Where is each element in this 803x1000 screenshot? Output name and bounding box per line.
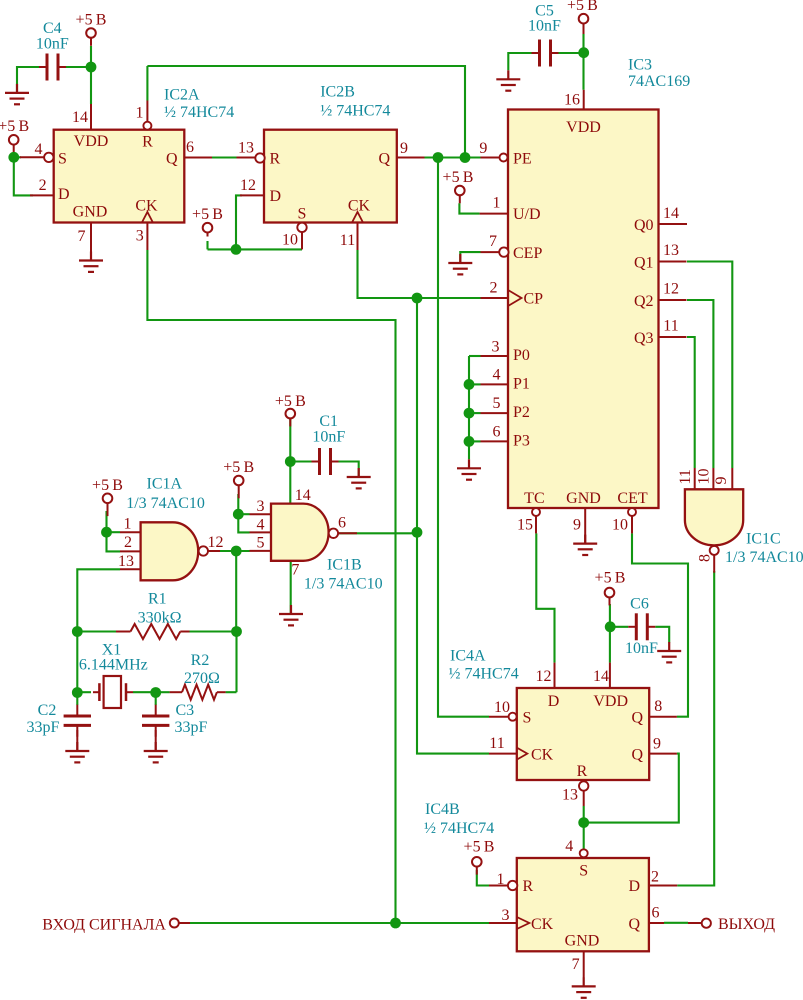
wire IC3 Q1 to IC1C pin 9 — [687, 262, 732, 469]
flip-flop IC2B body — [264, 130, 397, 223]
junction input / CK net — [390, 918, 401, 929]
wire C4 left to ground — [17, 67, 40, 93]
svg-text:C3: C3 — [175, 702, 194, 719]
svg-text:4: 4 — [35, 141, 43, 158]
junction +5/IC1A pin1 — [101, 527, 112, 538]
IC1C pin 11 — [694, 468, 696, 489]
svg-text:2: 2 — [124, 534, 132, 551]
wire C1 right to ground — [338, 462, 359, 478]
ground (C6) — [657, 642, 681, 662]
IC1B pin 4 — [250, 531, 272, 533]
IC3 pin 16 (VDD) — [583, 90, 585, 110]
junction IC4A R / IC4B S — [578, 817, 589, 828]
IC3 pin 9 (PE) — [500, 154, 508, 162]
wire IC3 CEP to ground — [460, 252, 480, 263]
wire +5 to IC3 U/D — [459, 203, 479, 213]
svg-text:11: 11 — [340, 232, 355, 249]
svg-text:10nF: 10nF — [528, 17, 561, 34]
svg-text:+5 В: +5 В — [223, 459, 254, 476]
wire IC4A Qbar pin9 to IC4B S net — [584, 754, 679, 823]
svg-text:9: 9 — [573, 517, 581, 534]
IC4B pin 6 (Q) — [649, 922, 664, 924]
junction +5/D/S IC2B — [231, 244, 242, 255]
svg-text:R: R — [577, 763, 588, 780]
svg-text:1: 1 — [136, 105, 144, 122]
wire +5 to IC1B pins 3,4 — [238, 494, 249, 532]
svg-text:Q: Q — [628, 916, 640, 933]
wire +5 to IC2A S and D — [14, 157, 33, 195]
svg-text:P0: P0 — [513, 347, 530, 364]
svg-text:9: 9 — [479, 140, 487, 157]
wire signal input to IC4B CK — [190, 922, 489, 924]
power +5 B (IC2B) — [192, 206, 223, 237]
power +5 B (C4) — [76, 12, 107, 46]
IC4A pin 14 (VDD) — [609, 663, 611, 688]
svg-text:6: 6 — [338, 515, 346, 532]
power +5 B (IC4B R) — [464, 839, 495, 875]
svg-text:3: 3 — [502, 907, 510, 924]
power +5 B (IC1A) — [92, 477, 123, 516]
wire C5 net to IC3 VDD pin16 — [582, 34, 584, 90]
svg-text:7: 7 — [572, 956, 580, 973]
nand gate IC1C body — [685, 489, 743, 545]
IC3 pin 4 (P1) — [481, 383, 509, 385]
IC3 pin 10 (CET) — [628, 508, 636, 516]
IC1B pin 3 — [250, 513, 272, 515]
svg-text:2: 2 — [490, 280, 498, 297]
junction C5/VDD16 — [578, 47, 589, 58]
wire R1 leads — [77, 630, 116, 632]
IC4B pin 4 (S) — [580, 849, 588, 857]
svg-text:U/D: U/D — [513, 206, 541, 223]
svg-text:7: 7 — [78, 228, 86, 245]
svg-text:10nF: 10nF — [625, 640, 658, 657]
svg-text:C6: C6 — [630, 595, 649, 612]
svg-text:R2: R2 — [191, 652, 210, 669]
wire +5 to IC4B R pin1 — [477, 870, 489, 886]
junction +5/IC1B pin3 — [233, 509, 244, 520]
IC4B pin 3 (CK) — [517, 917, 530, 929]
junction X1 right — [150, 687, 161, 698]
svg-text:C2: C2 — [38, 702, 57, 719]
junction CP net — [412, 293, 423, 304]
svg-text:Q: Q — [378, 150, 390, 167]
svg-text:15: 15 — [517, 517, 533, 534]
svg-text:R: R — [142, 134, 153, 151]
resistor R1 — [116, 631, 131, 633]
IC4A pin 11 (CK) — [517, 748, 528, 760]
svg-text:1/3 74AC10: 1/3 74AC10 — [304, 576, 383, 593]
IC2B pin 11 (CK) — [352, 212, 363, 223]
IC3 pin 3 (P0) — [481, 355, 509, 357]
IC1C pin 8 (output) — [710, 546, 719, 555]
IC4B pin 2 (D) — [649, 885, 677, 887]
svg-text:2: 2 — [651, 868, 659, 885]
svg-text:+5 В: +5 В — [76, 12, 107, 29]
svg-text:9: 9 — [713, 477, 730, 485]
wire IC1C out to IC4B D — [677, 571, 714, 886]
junction P3 — [464, 436, 475, 447]
IC2A pin names — [58, 133, 178, 221]
svg-text:10: 10 — [282, 232, 298, 249]
svg-text:D: D — [628, 878, 640, 895]
svg-text:13: 13 — [663, 242, 679, 259]
ground (IC3 pin9) — [573, 535, 597, 555]
svg-text:5: 5 — [493, 395, 501, 412]
IC2B pin 10 (S) — [297, 223, 306, 232]
svg-text:+5 В: +5 В — [443, 169, 474, 186]
IC3 pin 1 (U/D) — [480, 213, 508, 215]
wire IC1A pin13 left — [77, 569, 120, 631]
svg-text:6.144MHz: 6.144MHz — [79, 657, 148, 674]
svg-text:12: 12 — [240, 177, 256, 194]
svg-text:GND: GND — [73, 204, 108, 221]
svg-text:D: D — [58, 186, 70, 203]
capacitor C4 — [39, 54, 66, 81]
svg-text:13: 13 — [118, 553, 134, 570]
IC4A pin 13 (R) — [579, 781, 588, 790]
svg-text:P1: P1 — [513, 376, 530, 393]
svg-text:1/3 74AC10: 1/3 74AC10 — [126, 495, 205, 512]
svg-text:11: 11 — [677, 469, 694, 484]
svg-text:16: 16 — [564, 92, 580, 109]
IC4A pin 9 (Qbar) — [649, 753, 677, 755]
ground (IC1B pin7) — [279, 605, 303, 625]
ground (IC4B pin7) — [572, 977, 596, 997]
junction R1 left — [72, 626, 83, 637]
junction R1 right — [231, 626, 242, 637]
capacitor C6 — [628, 613, 655, 640]
junction IC1B out / CP net — [412, 527, 423, 538]
IC2B pin 13 (R) — [255, 153, 264, 162]
svg-text:7: 7 — [291, 562, 299, 579]
svg-text:5: 5 — [257, 535, 265, 552]
IC1B pin 6 (output) — [329, 529, 338, 538]
svg-text:14: 14 — [663, 205, 679, 222]
wire R2 leads — [156, 691, 170, 693]
wire IC4B Q to output — [664, 922, 688, 924]
svg-text:10nF: 10nF — [312, 429, 345, 446]
ground (C3) — [144, 742, 168, 762]
wire IC1A out node down to R1 — [235, 551, 237, 632]
svg-text:12: 12 — [208, 534, 224, 551]
IC2A pin 1 (R) — [143, 122, 151, 130]
wire node B vertical (CP net down to IC4A CK) — [417, 298, 489, 754]
junction Q net / node down — [433, 152, 444, 163]
svg-text:IC3: IC3 — [628, 57, 652, 74]
svg-text:3: 3 — [136, 227, 144, 244]
power +5 B (C6) — [595, 570, 626, 606]
IC3 pin 12 (Q2) — [659, 299, 687, 301]
svg-text:Q: Q — [631, 710, 643, 727]
svg-text:10: 10 — [494, 699, 510, 716]
wire IC3 Q3 to IC1C pin 11 — [687, 337, 695, 468]
IC3 pin 7 (CEP) — [499, 247, 508, 256]
svg-text:P2: P2 — [513, 404, 530, 421]
IC3 pin 9 (GND) — [584, 508, 586, 543]
junction IC1A out node — [231, 546, 242, 557]
svg-text:11: 11 — [663, 318, 678, 335]
IC4A pin 12 (D) — [554, 663, 556, 688]
IC2A pin 2 (D) — [30, 194, 54, 196]
IC4B pin 1 (R) — [508, 881, 517, 890]
junction P1 — [464, 379, 475, 390]
svg-text:P3: P3 — [513, 433, 530, 450]
nand gate IC1A body — [141, 522, 199, 580]
junction +5/S/D IC2A — [8, 152, 19, 163]
power +5 B (C1) — [275, 393, 306, 426]
svg-text:33pF: 33pF — [175, 719, 208, 736]
IC3 pin 5 (P2) — [481, 412, 509, 414]
svg-text:GND: GND — [566, 490, 601, 507]
IC2B pin 12 (D) — [240, 194, 264, 196]
ground (P0-P3) — [457, 459, 481, 479]
flip-flop IC2A body — [54, 130, 185, 223]
svg-text:S: S — [298, 206, 307, 223]
ground (CEP) — [448, 254, 472, 274]
svg-text:6: 6 — [493, 423, 501, 440]
svg-text:13: 13 — [238, 140, 254, 157]
svg-text:9: 9 — [653, 736, 661, 753]
wire +5 to IC1A pins 1,2 — [107, 511, 121, 551]
power +5 B (IC1B) — [223, 459, 254, 498]
IC2B pin names — [270, 150, 391, 222]
svg-text:6: 6 — [652, 905, 660, 922]
svg-text:D: D — [270, 188, 282, 205]
wire C6 right to ground — [655, 627, 669, 643]
wire C2 leads — [76, 692, 78, 705]
wire C4 right to junction — [65, 66, 91, 68]
svg-text:VDD: VDD — [74, 133, 109, 150]
svg-text:+5 В: +5 В — [567, 0, 598, 14]
wire R1 right node down to R2 — [235, 632, 237, 693]
svg-text:TC: TC — [524, 490, 544, 507]
svg-text:R: R — [523, 878, 534, 895]
IC2A pin 3 (CK) — [142, 212, 153, 223]
svg-text:½ 74HC74: ½ 74HC74 — [320, 102, 390, 119]
IC1C pin 10 — [712, 468, 714, 489]
svg-text:74AC169: 74AC169 — [628, 73, 690, 90]
svg-text:VDD: VDD — [593, 693, 628, 710]
IC2A pin 4 (S) — [44, 153, 53, 162]
svg-text:+5 В: +5 В — [275, 393, 306, 410]
svg-text:CK: CK — [531, 916, 554, 933]
svg-text:½ 74HC74: ½ 74HC74 — [424, 820, 494, 837]
IC2A pin 7 (GND) — [90, 223, 92, 252]
wire IC1B pin7 to ground — [290, 561, 292, 614]
svg-text:+5 В: +5 В — [464, 839, 495, 856]
svg-text:CET: CET — [617, 490, 647, 507]
wire IC2B CK to IC3 CP — [358, 250, 481, 298]
svg-text:2: 2 — [39, 177, 47, 194]
IC2A pin 6 (Q) — [184, 157, 212, 159]
svg-text:Q0: Q0 — [634, 217, 654, 234]
svg-text:CK: CK — [348, 198, 371, 215]
svg-text:33pF: 33pF — [27, 719, 60, 736]
svg-text:8: 8 — [654, 698, 662, 715]
svg-text:4: 4 — [565, 838, 573, 855]
ground (IC2A pin7) — [79, 252, 103, 272]
svg-text:14: 14 — [295, 487, 311, 504]
svg-text:½ 74HC74: ½ 74HC74 — [164, 104, 234, 121]
counter IC3 74AC169 body — [508, 110, 659, 509]
wire +5/C1 to IC1B pin14 VDD — [289, 418, 291, 504]
wire X1 leads — [76, 632, 78, 693]
svg-text:ВХОД СИГНАЛА: ВХОД СИГНАЛА — [42, 916, 166, 933]
svg-text:Q2: Q2 — [634, 293, 654, 310]
svg-text:8: 8 — [697, 554, 714, 562]
power +5 B (IC2A S) — [0, 118, 29, 157]
IC2A pin 14 (VDD) — [90, 104, 92, 130]
svg-text:IC1B: IC1B — [327, 557, 362, 574]
svg-text:6: 6 — [186, 139, 194, 156]
power +5 B (C5) — [567, 0, 598, 34]
svg-text:Q: Q — [631, 747, 643, 764]
wire C3 leads — [155, 692, 157, 705]
junction X1 left — [72, 687, 83, 698]
svg-text:12: 12 — [663, 281, 679, 298]
IC1A pin 2 — [120, 550, 141, 552]
svg-text:CEP: CEP — [513, 245, 542, 262]
svg-text:4: 4 — [257, 517, 265, 534]
wire C5 left to ground — [508, 53, 531, 70]
wire R-net top horizontal (IC2A R to PE column) — [147, 66, 465, 158]
svg-text:1: 1 — [124, 516, 132, 533]
IC3 pin 6 (P3) — [481, 440, 509, 442]
IC1A pin 13 — [120, 568, 141, 570]
crystal X1 — [93, 676, 133, 708]
junction Q net / node up — [460, 152, 471, 163]
svg-text:C1: C1 — [319, 413, 338, 430]
wire +5 to IC2B S and D — [206, 241, 208, 249]
wire IC1A out to IC1B pin5 / node — [220, 550, 250, 552]
svg-text:IC4B: IC4B — [425, 801, 460, 818]
svg-text:ВЫХОД: ВЫХОД — [718, 916, 775, 933]
svg-text:3: 3 — [257, 498, 265, 515]
svg-text:S: S — [523, 710, 532, 727]
wire IC2A pin14 VDD to C4 junction — [90, 46, 92, 104]
IC3 pin 14 (Q0) — [659, 223, 688, 225]
svg-text:10: 10 — [696, 469, 713, 485]
wire IC3 P0-P3 tie to ground — [468, 356, 470, 459]
junction C1/IC1B VDD — [285, 456, 296, 467]
svg-text:Q1: Q1 — [634, 254, 654, 271]
nand gate IC1B body — [271, 504, 329, 561]
svg-text:S: S — [579, 863, 588, 880]
svg-text:12: 12 — [536, 668, 552, 685]
svg-text:VDD: VDD — [566, 119, 601, 136]
svg-text:1: 1 — [493, 195, 501, 212]
wire IC1B out to CP net — [338, 532, 417, 534]
resistor R2 — [170, 691, 182, 693]
svg-text:½ 74HC74: ½ 74HC74 — [449, 666, 519, 683]
svg-text:IC2A: IC2A — [164, 86, 200, 103]
svg-text:IC4A: IC4A — [450, 648, 486, 665]
IC1C pin 9 — [731, 468, 733, 489]
ground (C5) — [496, 70, 520, 90]
junction C6/IC4A VDD — [605, 621, 616, 632]
svg-text:10nF: 10nF — [36, 35, 69, 52]
wire IC4A R pin13 to junction to IC4B S — [583, 806, 585, 849]
IC4B pin 7 (GND) — [583, 951, 585, 977]
wire IC2B Q to IC3 PE — [425, 156, 481, 158]
svg-text:Q: Q — [166, 150, 178, 167]
capacitor C1 — [312, 448, 339, 475]
IC4A pin 10 (S) — [509, 713, 517, 721]
svg-text:9: 9 — [400, 140, 408, 157]
svg-text:+5 В: +5 В — [92, 477, 123, 494]
svg-text:S: S — [58, 150, 67, 167]
IC1A pin 1 — [120, 531, 141, 533]
IC1A pin 12 (output) — [199, 546, 208, 555]
svg-text:270Ω: 270Ω — [184, 670, 220, 687]
flip-flop IC4B body — [517, 858, 649, 951]
node output BYXOD — [702, 919, 711, 928]
svg-text:10: 10 — [612, 517, 628, 534]
svg-text:CP: CP — [524, 291, 544, 308]
flip-flop IC4A body — [517, 688, 649, 780]
IC3 pin 13 (Q1) — [659, 261, 687, 263]
capacitor C5 — [532, 40, 559, 67]
wire +5/C6 to IC4A VDD pin14 — [609, 604, 611, 663]
svg-text:+5 В: +5 В — [595, 570, 626, 587]
ground (C1) — [347, 468, 371, 488]
wire IC2A R pin up — [146, 66, 148, 101]
svg-text:+5 В: +5 В — [192, 206, 223, 223]
IC3 pin 11 (Q3) — [659, 336, 687, 338]
svg-text:IC1C: IC1C — [746, 531, 781, 548]
svg-text:4: 4 — [493, 367, 501, 384]
svg-text:Q3: Q3 — [634, 330, 654, 347]
svg-text:3: 3 — [492, 338, 500, 355]
IC3 pin 15 (TC) — [532, 508, 540, 516]
svg-text:PE: PE — [513, 150, 532, 167]
IC3 pin 2 (CP) — [508, 290, 522, 306]
wire IC2A Q to IC2B R — [212, 156, 237, 158]
svg-text:11: 11 — [489, 735, 504, 752]
power +5 B (U/D) — [443, 169, 474, 203]
IC4A pin names — [523, 693, 644, 780]
IC1B pin 5 — [250, 550, 272, 552]
IC3 pin names — [513, 119, 654, 507]
ground (C4) — [5, 84, 29, 104]
svg-text:CK: CK — [531, 747, 554, 764]
IC2B pin 9 (Q) — [397, 157, 425, 159]
svg-text:1/3 74AC10: 1/3 74AC10 — [725, 549, 803, 566]
svg-text:330kΩ: 330kΩ — [138, 610, 182, 627]
ground (C2) — [65, 742, 89, 762]
wire IC2A CK down and across to bottom — [147, 250, 395, 923]
capacitor C2 — [64, 705, 91, 737]
svg-text:GND: GND — [565, 933, 600, 950]
wire IC3 Q2 to IC1C pin 10 — [687, 300, 713, 468]
svg-text:1: 1 — [497, 871, 505, 888]
svg-text:7: 7 — [489, 233, 497, 250]
svg-text:14: 14 — [72, 109, 88, 126]
IC4B pin names — [523, 863, 641, 950]
svg-text:13: 13 — [562, 787, 578, 804]
wire IC3 TC to IC4A D — [536, 533, 554, 662]
junction C4/VDD14 — [86, 62, 97, 73]
svg-text:+5 В: +5 В — [0, 118, 29, 135]
capacitor C3 — [142, 705, 169, 737]
svg-text:14: 14 — [593, 668, 609, 685]
svg-text:R1: R1 — [148, 591, 167, 608]
svg-text:D: D — [548, 693, 560, 710]
wire IC3 CET to IC4A Q pin8 — [632, 533, 688, 716]
svg-text:IC1A: IC1A — [147, 476, 183, 493]
IC4A pin 8 (Q) — [649, 716, 677, 718]
